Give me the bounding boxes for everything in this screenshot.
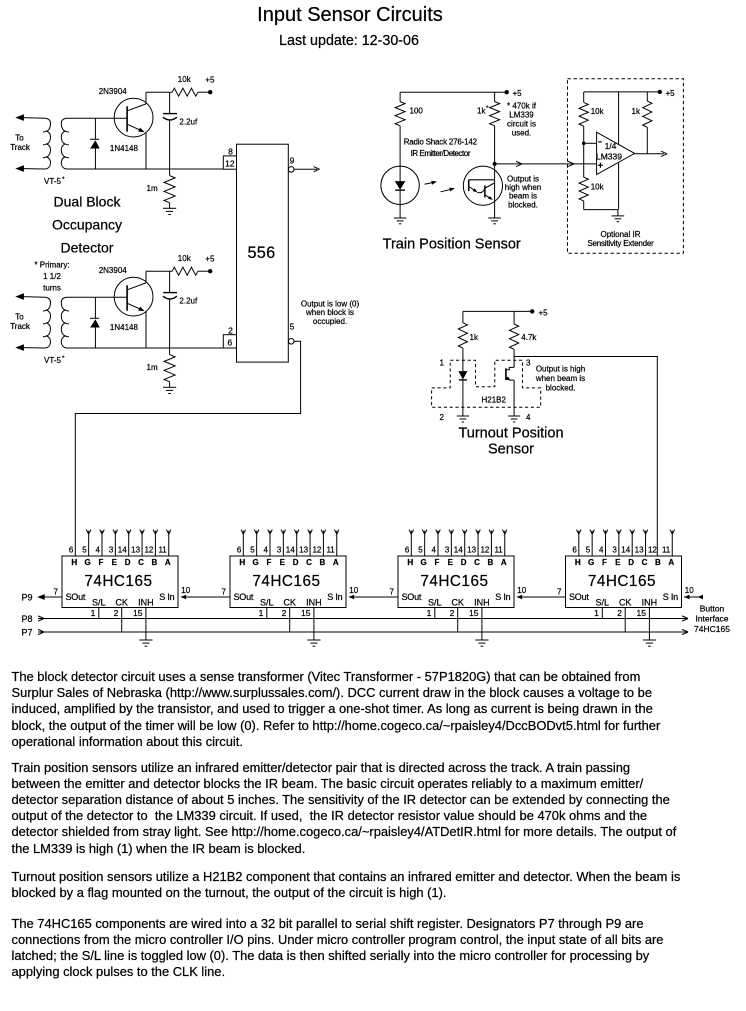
svg-text:C: C [138, 558, 144, 567]
svg-text:S/L: S/L [428, 597, 442, 607]
svg-text:4: 4 [264, 546, 269, 555]
svg-text:12: 12 [225, 159, 235, 169]
svg-text:1: 1 [440, 359, 445, 368]
svg-text:occupied.: occupied. [313, 317, 347, 326]
svg-text:6: 6 [69, 546, 74, 555]
svg-text:CK: CK [619, 597, 632, 607]
svg-text:C: C [642, 558, 648, 567]
svg-text:2N3904: 2N3904 [99, 266, 128, 275]
svg-text:B: B [488, 558, 494, 567]
svg-text:6: 6 [572, 546, 577, 555]
svg-text:when block is: when block is [305, 308, 354, 317]
svg-text:* 470k if: * 470k if [507, 102, 537, 111]
svg-text:B: B [655, 558, 661, 567]
svg-text:P9: P9 [22, 592, 33, 602]
svg-text:C: C [306, 558, 312, 567]
svg-text:8: 8 [228, 147, 233, 157]
svg-text:1: 1 [259, 608, 264, 618]
svg-text:To: To [15, 312, 24, 321]
svg-text:Track: Track [10, 143, 31, 152]
svg-text:D: D [293, 558, 299, 567]
svg-text:circuit is: circuit is [507, 120, 536, 129]
svg-text:VT-5: VT-5 [44, 177, 61, 186]
svg-text:11: 11 [494, 546, 503, 555]
svg-text:1: 1 [91, 608, 96, 618]
svg-text:Sensitivity Extender: Sensitivity Extender [587, 239, 654, 248]
svg-text:+5: +5 [205, 76, 215, 85]
svg-text:INH: INH [306, 597, 322, 607]
svg-text:E: E [280, 558, 286, 567]
svg-text:CK: CK [115, 597, 128, 607]
svg-text:5: 5 [82, 546, 87, 555]
svg-text:14: 14 [454, 546, 463, 555]
svg-text:H: H [575, 558, 581, 567]
svg-text:74HC165: 74HC165 [84, 573, 152, 590]
svg-text:15: 15 [469, 608, 479, 618]
svg-text:Dual Block: Dual Block [54, 193, 122, 209]
svg-text:LM339: LM339 [509, 111, 534, 120]
svg-text:INH: INH [138, 597, 154, 607]
svg-text:C: C [474, 558, 480, 567]
svg-text:9: 9 [290, 156, 295, 166]
svg-text:5: 5 [586, 546, 591, 555]
svg-text:D: D [125, 558, 131, 567]
svg-text:2: 2 [617, 608, 622, 618]
svg-text:Output is low (0): Output is low (0) [301, 300, 360, 309]
svg-text:CK: CK [451, 597, 464, 607]
svg-text:INH: INH [474, 597, 490, 607]
svg-text:10: 10 [517, 586, 526, 595]
svg-text:14: 14 [621, 546, 630, 555]
svg-text:11: 11 [662, 546, 671, 555]
svg-text:F: F [267, 558, 272, 567]
svg-text:S In: S In [327, 592, 342, 602]
svg-text:1m: 1m [147, 184, 158, 193]
svg-text:1: 1 [427, 608, 432, 618]
svg-text:H: H [71, 558, 77, 567]
svg-text:10: 10 [349, 586, 358, 595]
svg-text:S/L: S/L [92, 597, 106, 607]
svg-text:A: A [668, 558, 674, 567]
svg-text:15: 15 [133, 608, 143, 618]
svg-text:7: 7 [222, 588, 227, 597]
svg-text:E: E [615, 558, 621, 567]
svg-text:2N3904: 2N3904 [99, 87, 128, 96]
svg-text:7: 7 [390, 588, 395, 597]
svg-text:12: 12 [648, 546, 657, 555]
svg-text:556: 556 [247, 244, 275, 262]
svg-text:F: F [435, 558, 440, 567]
svg-text:7: 7 [557, 588, 562, 597]
svg-text:Radio Shack 276-142: Radio Shack 276-142 [404, 138, 478, 147]
svg-text:12: 12 [144, 546, 153, 555]
svg-text:Output is high: Output is high [536, 365, 585, 374]
svg-text:D: D [461, 558, 467, 567]
svg-text:+5: +5 [513, 89, 523, 98]
svg-text:SOut: SOut [234, 592, 254, 602]
svg-text:1/4: 1/4 [605, 141, 617, 151]
svg-text:Train Position Sensor: Train Position Sensor [383, 236, 521, 252]
svg-text:when beam is: when beam is [535, 374, 585, 383]
svg-text:Sensor: Sensor [488, 441, 534, 457]
svg-text:Detector: Detector [61, 239, 114, 255]
svg-text:CK: CK [283, 597, 296, 607]
svg-text:3: 3 [277, 546, 282, 555]
svg-text:G: G [253, 558, 259, 567]
svg-text:3: 3 [109, 546, 114, 555]
svg-text:13: 13 [467, 546, 476, 555]
svg-text:E: E [448, 558, 454, 567]
svg-text:7: 7 [54, 588, 59, 597]
svg-text:SOut: SOut [402, 592, 422, 602]
svg-text:1k: 1k [470, 333, 479, 342]
svg-text:10k: 10k [591, 183, 605, 192]
svg-text:A: A [165, 558, 171, 567]
svg-text:10k: 10k [178, 254, 192, 263]
svg-text:+5: +5 [539, 308, 549, 317]
svg-text:G: G [588, 558, 594, 567]
svg-text:74HC165: 74HC165 [694, 624, 730, 634]
svg-text:1k: 1k [632, 107, 641, 116]
svg-text:*: * [62, 355, 65, 362]
svg-text:11: 11 [326, 546, 335, 555]
svg-text:6: 6 [228, 338, 233, 348]
svg-text:4: 4 [526, 413, 531, 422]
svg-text:high when: high when [505, 183, 541, 192]
svg-text:S/L: S/L [260, 597, 274, 607]
svg-text:F: F [99, 558, 104, 567]
svg-text:B: B [152, 558, 158, 567]
svg-text:1N4148: 1N4148 [110, 144, 139, 153]
svg-text:S In: S In [495, 592, 510, 602]
svg-text:13: 13 [299, 546, 308, 555]
svg-text:H: H [407, 558, 413, 567]
svg-text:Occupancy: Occupancy [52, 216, 122, 232]
svg-text:blocked.: blocked. [546, 384, 576, 393]
svg-text:10: 10 [685, 586, 694, 595]
svg-text:G: G [85, 558, 91, 567]
svg-text:Interface: Interface [695, 614, 728, 624]
svg-text:1 1/2: 1 1/2 [43, 272, 61, 281]
svg-text:To: To [15, 133, 24, 142]
svg-text:100: 100 [410, 107, 424, 116]
svg-text:5: 5 [418, 546, 423, 555]
svg-text:A: A [501, 558, 507, 567]
svg-text:* Primary:: * Primary: [34, 261, 69, 270]
svg-text:15: 15 [301, 608, 311, 618]
svg-text:Turnout Position: Turnout Position [458, 425, 563, 441]
svg-text:Optional IR: Optional IR [600, 230, 640, 239]
svg-text:Output is: Output is [507, 174, 539, 183]
svg-text:2: 2 [450, 608, 455, 618]
svg-text:2: 2 [440, 413, 445, 422]
svg-text:74HC165: 74HC165 [420, 573, 488, 590]
svg-text:5: 5 [250, 546, 255, 555]
svg-text:3: 3 [612, 546, 617, 555]
svg-text:13: 13 [131, 546, 140, 555]
svg-text:used.: used. [512, 129, 532, 138]
svg-text:+5: +5 [205, 255, 215, 264]
svg-text:4: 4 [432, 546, 437, 555]
svg-text:74HC165: 74HC165 [588, 573, 656, 590]
svg-text:turns: turns [43, 284, 61, 293]
svg-text:12: 12 [480, 546, 489, 555]
svg-text:D: D [628, 558, 634, 567]
svg-text:5: 5 [290, 322, 295, 332]
svg-text:S/L: S/L [596, 597, 610, 607]
svg-text:1: 1 [594, 608, 599, 618]
svg-text:1m: 1m [147, 363, 158, 372]
svg-text:11: 11 [158, 546, 167, 555]
svg-text:2: 2 [282, 608, 287, 618]
svg-text:INH: INH [642, 597, 658, 607]
svg-text:IR Emitter/Detector: IR Emitter/Detector [411, 149, 471, 158]
svg-text:2: 2 [228, 325, 233, 335]
svg-text:F: F [602, 558, 607, 567]
svg-text:74HC165: 74HC165 [252, 573, 320, 590]
svg-text:blocked.: blocked. [508, 200, 538, 209]
svg-text:E: E [112, 558, 118, 567]
svg-text:1N4148: 1N4148 [110, 323, 139, 332]
svg-text:14: 14 [118, 546, 127, 555]
svg-text:Button: Button [700, 604, 725, 614]
svg-text:2: 2 [114, 608, 119, 618]
svg-text:A: A [333, 558, 339, 567]
svg-text:B: B [320, 558, 326, 567]
svg-text:12: 12 [312, 546, 321, 555]
svg-text:6: 6 [237, 546, 242, 555]
svg-text:3: 3 [526, 359, 531, 368]
svg-text:10k: 10k [178, 75, 192, 84]
svg-text:P7: P7 [22, 628, 33, 638]
svg-text:beam is: beam is [509, 192, 537, 201]
svg-text:H21B2: H21B2 [482, 395, 507, 404]
svg-text:3: 3 [445, 546, 450, 555]
svg-text:S In: S In [159, 592, 174, 602]
svg-text:13: 13 [635, 546, 644, 555]
svg-text:S In: S In [663, 592, 678, 602]
svg-text:2.2uf: 2.2uf [179, 118, 198, 127]
svg-text:4.7k: 4.7k [521, 333, 537, 342]
svg-text:*: * [62, 176, 65, 183]
svg-text:SOut: SOut [569, 592, 589, 602]
svg-text:+5: +5 [666, 89, 676, 98]
svg-text:2.2uf: 2.2uf [179, 297, 198, 306]
svg-text:10: 10 [181, 586, 190, 595]
svg-text:LM339: LM339 [596, 151, 622, 161]
svg-text:*: * [486, 105, 489, 112]
svg-text:Track: Track [10, 322, 31, 331]
svg-text:P8: P8 [22, 614, 33, 624]
svg-text:15: 15 [637, 608, 647, 618]
svg-text:10k: 10k [591, 107, 605, 116]
svg-text:4: 4 [599, 546, 604, 555]
svg-text:4: 4 [96, 546, 101, 555]
svg-text:G: G [421, 558, 427, 567]
svg-text:VT-5: VT-5 [44, 356, 61, 365]
svg-text:SOut: SOut [66, 592, 86, 602]
svg-text:14: 14 [286, 546, 295, 555]
svg-text:6: 6 [405, 546, 410, 555]
svg-text:H: H [239, 558, 245, 567]
